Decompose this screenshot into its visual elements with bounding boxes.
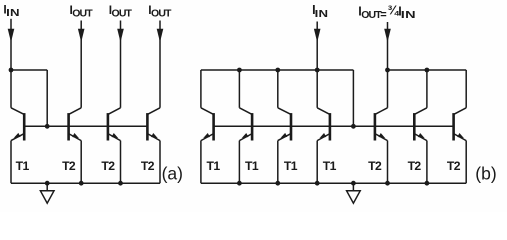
output current arrow I_OUT 2 (a), collector wire of T2 #2 <box>117 21 124 108</box>
transistor T2 #2 (b) <box>414 108 427 183</box>
node: bus junction I_OUT / T2#1 (b) <box>385 68 390 73</box>
svg-text:(a): (a) <box>162 164 183 184</box>
svg-text:OUT: OUT <box>151 7 172 19</box>
svg-text:T1: T1 <box>284 159 298 173</box>
node: bus junction I_IN / T1#4 (b) <box>315 68 320 73</box>
transistor T1 #4 (b) <box>317 108 330 183</box>
node: emitter junction T1#2 (b) <box>237 181 242 186</box>
node: emitter junction T2#2 (a) <box>118 181 123 186</box>
wire: output collector bus (b) <box>388 70 467 108</box>
node: base rail junction (a) <box>45 124 50 129</box>
svg-text:OUT: OUT <box>72 7 93 19</box>
node: input/base junction (a) <box>9 68 14 73</box>
transistor T1 #1 (b) <box>201 108 214 183</box>
svg-text:T2: T2 <box>62 159 76 173</box>
transistor T2 #1 (a) <box>69 108 82 183</box>
transistor T1 #2 (b) <box>239 108 252 183</box>
node: emitter junction T1#4 (b) <box>315 181 320 186</box>
label I_IN (b) <box>312 3 328 19</box>
wire: base rail (b) <box>214 125 454 127</box>
node: bus junction T1#2 (b) <box>237 68 242 73</box>
wire: input collector bus (b) <box>201 70 354 108</box>
svg-text:T1: T1 <box>245 159 259 173</box>
transistor T2 #1 (b) <box>375 108 388 183</box>
label I_OUT 3 (a) <box>148 3 172 19</box>
svg-text:T2: T2 <box>368 159 382 173</box>
svg-text:OUT: OUT <box>361 9 382 21</box>
wire: base rail (a) <box>24 125 147 127</box>
svg-text:T2: T2 <box>447 159 461 173</box>
node: ground tap (b) <box>351 181 356 186</box>
svg-text:OUT: OUT <box>112 7 133 19</box>
svg-text:T1: T1 <box>16 159 30 173</box>
svg-text:T2: T2 <box>101 159 115 173</box>
node: base rail junction (b) <box>351 124 356 129</box>
svg-text:=: = <box>380 9 386 21</box>
label I_OUT 1 (a) <box>70 3 94 19</box>
transistor T2 #3 (a) <box>147 108 160 183</box>
transistor T2 #3 (b) <box>454 108 467 183</box>
node: bus junction T2#2 (b) <box>425 68 430 73</box>
node: emitter junction T2#1 (a) <box>79 181 84 186</box>
svg-text:T2: T2 <box>408 159 422 173</box>
ground (b) <box>347 183 361 203</box>
node: emitter junction T2#2 (b) <box>425 181 430 186</box>
wire: emitter/ground rail (b) <box>201 182 466 184</box>
label I_OUT = 3/4 I_IN (b) <box>358 3 416 22</box>
svg-text:IN: IN <box>401 9 416 21</box>
label I_IN (a) <box>3 3 19 19</box>
output current arrow I_OUT 3 (a), collector wire of T2 #3 <box>157 21 164 108</box>
svg-text:T1: T1 <box>206 159 220 173</box>
output current arrow I_OUT 1 (a), collector wire of T2 #1 <box>78 21 85 108</box>
label I_OUT 2 (a) <box>109 3 133 19</box>
node: emitter junction T2#1 (b) <box>385 181 390 186</box>
transistor T1 (a) <box>11 108 24 183</box>
svg-text:(b): (b) <box>475 164 496 184</box>
ground (a) <box>40 183 54 203</box>
transistor T1 #3 (b) <box>278 108 291 183</box>
svg-text:T2: T2 <box>141 159 155 173</box>
wire: emitter/ground rail (a) <box>11 182 160 184</box>
svg-text:T1: T1 <box>323 159 337 173</box>
wire: diode connection bus to base rail (b) <box>352 70 354 126</box>
input current arrow I_IN (b) <box>314 22 321 71</box>
svg-text:IN: IN <box>315 7 329 19</box>
output current arrow I_OUT (b) <box>384 22 391 70</box>
wire: diode connection from I_IN to base rail (a) <box>11 70 47 126</box>
node: emitter junction T1#3 (b) <box>275 181 280 186</box>
svg-text:IN: IN <box>6 6 20 18</box>
transistor T2 #2 (a) <box>108 108 121 183</box>
node: bus junction T1#3 (b) <box>275 68 280 73</box>
node: ground tap (a) <box>45 181 50 186</box>
input current arrow I_IN (a), collector wire of T1 <box>8 19 15 108</box>
